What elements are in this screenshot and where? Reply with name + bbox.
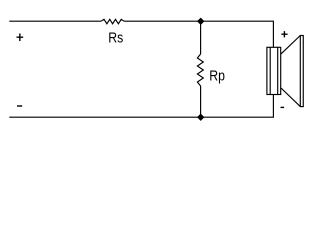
wire: node A down to Rp xyxy=(200,21,202,54)
speaker + polarity mark xyxy=(281,31,287,37)
node B junction dot xyxy=(197,114,204,121)
node A junction dot xyxy=(197,18,204,25)
wire: Rp down to node B xyxy=(200,86,202,117)
left terminal - polarity mark xyxy=(17,105,22,107)
label Rs xyxy=(108,29,123,45)
speaker body inner left line xyxy=(269,47,271,94)
svg-text:Rp: Rp xyxy=(209,67,225,83)
resistor Rs xyxy=(101,19,124,24)
speaker - polarity mark xyxy=(281,106,285,108)
svg-text:Rs: Rs xyxy=(108,29,123,45)
speaker body inner right line xyxy=(277,47,279,94)
wire: Rs to top-right corner and down to speaker, through node A xyxy=(124,21,273,47)
speaker cone top diagonal xyxy=(281,36,300,54)
wire: bottom input stub from left terminal through node B to bottom-right corner, up to speaker xyxy=(9,95,273,118)
resistor Rp xyxy=(197,54,203,86)
wire: top input stub from left terminal to Rs xyxy=(9,20,101,22)
label Rp xyxy=(209,67,225,83)
speaker LS1 body rectangle xyxy=(267,47,281,94)
speaker cone mouth bar xyxy=(300,36,303,107)
left terminal + polarity mark xyxy=(17,34,24,42)
speaker cone bottom diagonal xyxy=(281,88,300,107)
